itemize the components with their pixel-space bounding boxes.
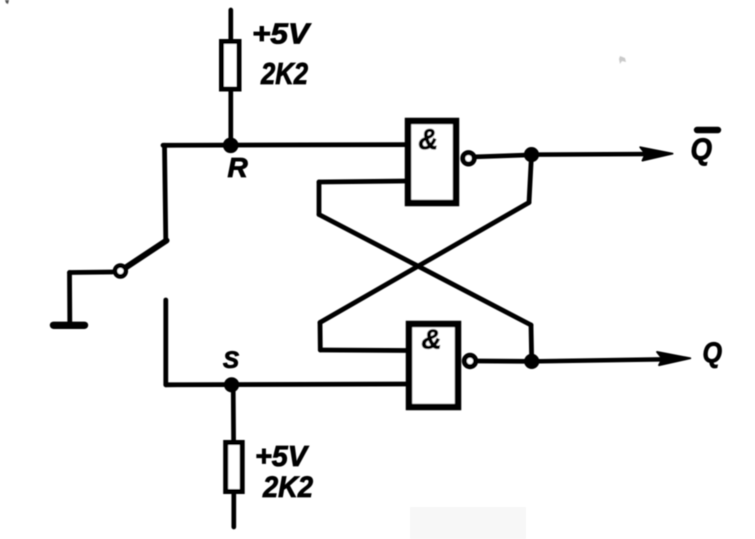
resistor 2K2 (lower pull-up) [226,443,243,492]
scan artifact: light gray block bottom center [410,507,526,539]
scan speck upper right [619,56,626,64]
wire: node S down to lower resistor [231,385,236,441]
svg-text:S: S [223,347,239,374]
wire: top feed above pull-up resistor R [228,10,233,40]
wire: U1 output to Qbar junction [476,155,533,157]
wire: horizontal R line to gate input 1 [163,142,407,147]
junction: Q node [524,354,539,369]
wire: short vertical below Qbar node [529,155,532,203]
junction node R [223,138,239,154]
wire: feedback horizontal into U1 input 2 [319,181,407,182]
arrowhead Q output [657,352,690,365]
NAND gate U2 (lower) body [409,324,458,407]
wire: Q node to output arrow [532,359,668,361]
scan speck top-left corner [5,0,9,4]
svg-text:+5V: +5V [255,441,310,473]
wire: short vertical left lower (feedback) [318,323,323,351]
svg-text:2K2: 2K2 [260,56,308,91]
switch pole circle [115,266,126,277]
NAND gate U1 (upper) body [408,121,456,203]
overbar of Qbar [697,127,718,133]
wire: below lower resistor [231,492,236,528]
ground bar [54,322,85,329]
wire: diagonal from upper-right to lower-left (U1 output to U2 input) [320,203,529,323]
svg-text:+5V: +5V [252,19,312,51]
wire: resistor to node R [228,89,233,146]
svg-text:Q: Q [691,132,713,167]
resistor 2K2 (upper pull-up) [222,42,240,90]
wire: U2 output to Q junction [479,359,534,364]
junction node S [224,377,239,392]
wire: diagonal from upper-left to lower-right (U2 output to U1 input) [319,215,531,326]
wire: short vertical left upper (feedback) [317,182,322,215]
svg-text:&: & [422,324,442,355]
wire: right vertical down to Q node [529,325,535,361]
wire: Qbar node to output arrow [532,152,656,157]
arrowhead Qbar output [640,147,672,160]
gate U2 output inversion bubble [464,355,475,366]
wire: horizontal S line to gate input 2 [166,382,407,388]
wire: switch pole to ground drop [70,270,113,275]
switch arm (pole to R contact) [127,241,167,268]
svg-text:Q: Q [703,338,723,370]
wire: feedback horizontal into U2 input 1 [320,348,408,353]
wire: left vertical from R line down to switch top contact [165,145,166,241]
junction: Qbar node [524,147,539,162]
svg-text:&: & [419,124,439,156]
gate U1 output inversion bubble [463,153,474,164]
svg-text:2K2: 2K2 [262,471,313,504]
wire: lower switch contact vertical down to S line [163,300,168,385]
wire: vertical down to ground [67,273,72,323]
svg-text:R: R [228,152,249,183]
